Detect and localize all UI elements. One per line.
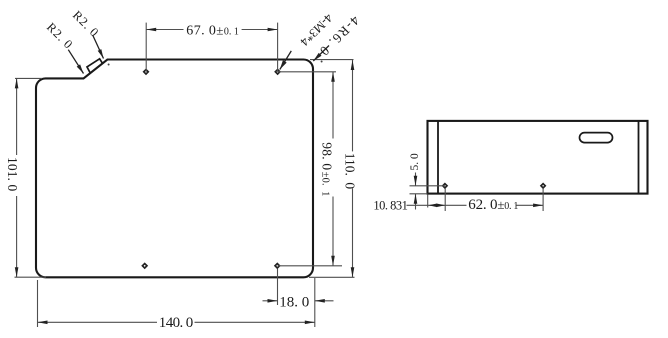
side hole right <box>541 184 545 188</box>
dim 62.0±0.1 side <box>445 189 543 212</box>
leader 4-M3*4 <box>280 11 336 70</box>
stray dot near chamfer <box>108 64 110 66</box>
side view inner left line <box>437 121 439 194</box>
leader R2.0 upper <box>70 8 104 58</box>
dim 67.0±0.1 top <box>146 23 277 72</box>
svg-text:101. 0: 101. 0 <box>5 157 20 191</box>
leader R2.0 lower <box>44 20 84 73</box>
dim 140.0 bottom <box>38 280 315 327</box>
leader 4-R6.0 <box>313 13 362 61</box>
svg-text:140. 0: 140. 0 <box>159 315 193 331</box>
hole bottom-left <box>142 264 147 269</box>
svg-text:110. 0: 110. 0 <box>343 153 358 190</box>
svg-text:67. 0±0. 1: 67. 0±0. 1 <box>186 22 239 38</box>
svg-text:18. 0: 18. 0 <box>279 295 309 311</box>
dim 101.0 left <box>15 78 47 277</box>
chamfer notch tab <box>87 59 103 73</box>
dim 10.831 side <box>407 189 446 212</box>
svg-text:10. 831: 10. 831 <box>373 199 407 213</box>
front view plate outline with chamfer notch <box>36 60 313 278</box>
dim 98.0±0.1 right <box>278 72 342 266</box>
svg-text:5. 0: 5. 0 <box>409 153 421 171</box>
svg-text:62. 0±0. 1: 62. 0±0. 1 <box>468 197 518 213</box>
hole bottom-right <box>275 264 280 269</box>
side view slot <box>580 133 613 143</box>
hole top-right <box>275 70 280 75</box>
svg-text:98. 0±0.1: 98. 0±0.1 <box>319 142 334 196</box>
side hole left <box>443 184 447 188</box>
dim 5.0 side <box>410 173 445 210</box>
hole top-left <box>144 70 149 75</box>
dim 18.0 bottom right <box>263 269 334 327</box>
svg-text:R2. 0: R2. 0 <box>44 20 76 52</box>
side view inner right line <box>638 121 640 194</box>
stray dot near top-right corner <box>321 61 323 63</box>
side view outline <box>428 121 648 194</box>
svg-text:R2. 0: R2. 0 <box>70 8 102 40</box>
dim 110.0 far right <box>309 60 355 278</box>
